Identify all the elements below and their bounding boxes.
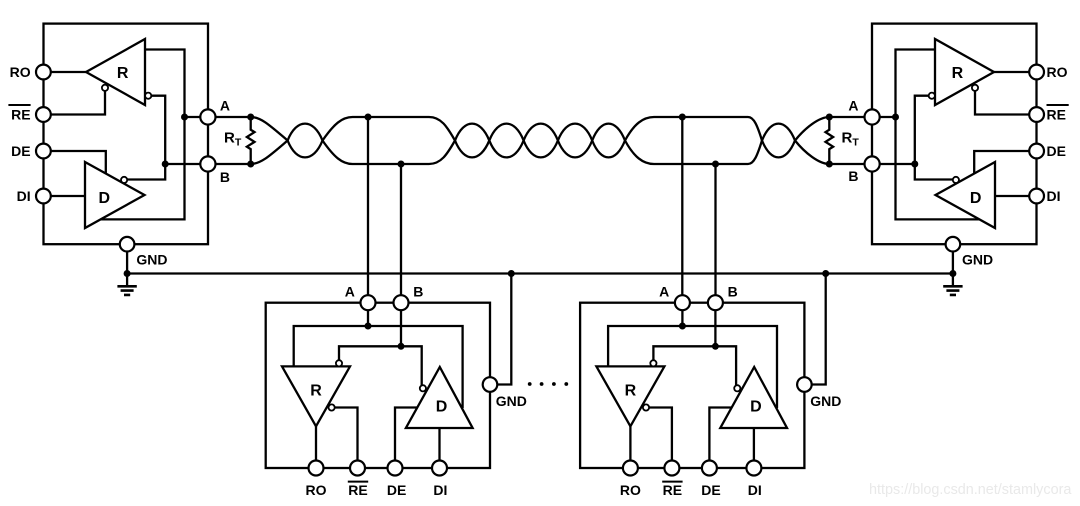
- svg-text:B: B: [220, 169, 230, 185]
- ground bus wire: [127, 272, 953, 274]
- wire stub A left module: [367, 117, 369, 303]
- wire stub B left module: [400, 164, 402, 303]
- wire stub A right module: [681, 117, 683, 303]
- transceiver module 4 (bottom right): [580, 270, 841, 498]
- junction stub A right: [679, 114, 686, 121]
- svg-text:RE: RE: [11, 107, 30, 123]
- svg-text:B: B: [848, 168, 858, 184]
- junction stub B right: [712, 161, 719, 168]
- transceiver U2 (right, mirrored): [826, 24, 1045, 295]
- junction stub A left: [365, 114, 372, 121]
- svg-text:D: D: [99, 190, 111, 207]
- twisted pair wire 2: [251, 124, 830, 164]
- transceiver module 3 (bottom left): [266, 270, 527, 498]
- transceiver U1 (left): [36, 24, 255, 295]
- svg-text:A: A: [848, 98, 858, 114]
- svg-text:A: A: [220, 98, 230, 114]
- svg-text:DI: DI: [17, 188, 31, 204]
- svg-text:R: R: [952, 65, 964, 82]
- svg-text:D: D: [970, 190, 982, 207]
- twisted pair wire 1: [251, 117, 830, 157]
- ellipsis dots: [528, 382, 532, 386]
- svg-text:RE: RE: [1047, 107, 1066, 123]
- svg-text:R: R: [117, 65, 129, 82]
- wire stub B right module: [714, 164, 716, 303]
- svg-text:RO: RO: [10, 64, 31, 80]
- svg-text:RT: RT: [842, 130, 860, 149]
- svg-text:https://blog.csdn.net/stamlyco: https://blog.csdn.net/stamlycora: [869, 482, 1071, 498]
- svg-text:DI: DI: [1047, 188, 1061, 204]
- junction stub B left: [398, 161, 405, 168]
- svg-text:RT: RT: [224, 130, 242, 149]
- svg-text:RO: RO: [1047, 64, 1068, 80]
- svg-text:DE: DE: [11, 143, 30, 159]
- svg-text:GND: GND: [962, 252, 993, 268]
- svg-text:GND: GND: [136, 252, 167, 268]
- svg-text:DE: DE: [1047, 143, 1066, 159]
